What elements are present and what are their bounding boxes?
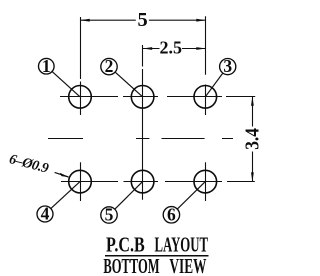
svg-text:5: 5 <box>105 205 114 225</box>
svg-text:4: 4 <box>41 204 50 224</box>
leader balloon2 <box>115 72 143 97</box>
svg-text:2.5: 2.5 <box>160 37 183 57</box>
svg-text:BOTTOM: BOTTOM <box>103 254 159 276</box>
leader balloon3 <box>205 73 223 97</box>
svg-text:1: 1 <box>42 56 51 76</box>
centerline pad6 vertical <box>205 162 207 201</box>
svg-text:6: 6 <box>167 204 176 224</box>
centerline middle horizontal <box>48 138 233 140</box>
centerline col1 vertical <box>80 17 82 115</box>
arrowhead dim5 right <box>196 19 206 22</box>
arrowhead hole leader <box>60 173 69 177</box>
centerline row1 horizontal <box>60 96 255 98</box>
balloon circle 3 <box>220 59 236 75</box>
arrowhead dim2.5 right <box>196 47 206 50</box>
pad hole 3 <box>194 86 217 109</box>
balloon circle 6 <box>163 207 179 223</box>
svg-text:3.4: 3.4 <box>243 128 264 150</box>
arrowhead dim5 left <box>80 19 90 22</box>
centerline col2 vertical <box>142 45 144 200</box>
title underline <box>105 255 209 257</box>
dimension line 2.5 <box>143 48 206 50</box>
leader balloon5 <box>115 182 143 210</box>
centerline col3 vertical <box>205 16 207 115</box>
pad hole 5 <box>131 170 154 193</box>
pad hole 2 <box>131 86 154 109</box>
svg-text:6–Ø0.9: 6–Ø0.9 <box>7 152 50 177</box>
balloon circle 4 <box>37 206 53 222</box>
svg-text:2: 2 <box>105 56 114 76</box>
arrowhead dim2.5 left <box>143 47 153 50</box>
pad hole 1 <box>69 86 92 109</box>
leader balloon4 <box>51 182 80 209</box>
arrowhead dim3.4 top <box>251 96 254 106</box>
centerline row2 horizontal <box>61 181 255 183</box>
leader balloon6 <box>177 182 205 210</box>
leader hole label <box>55 172 69 177</box>
centerline pad4 vertical <box>80 162 82 201</box>
balloon circle 2 <box>101 58 117 74</box>
svg-text:VIEW: VIEW <box>169 254 206 276</box>
svg-text:3: 3 <box>223 56 232 76</box>
dimension line 3.4 <box>252 97 254 182</box>
leader balloon1 <box>52 71 80 96</box>
pad hole 4 <box>69 170 92 193</box>
dimension line 5 <box>81 19 206 21</box>
balloon circle 1 <box>39 58 55 74</box>
pad hole 6 <box>194 170 217 193</box>
svg-text:5: 5 <box>137 9 147 31</box>
balloon circle 5 <box>101 207 117 223</box>
arrowhead dim3.4 bottom <box>251 172 254 182</box>
